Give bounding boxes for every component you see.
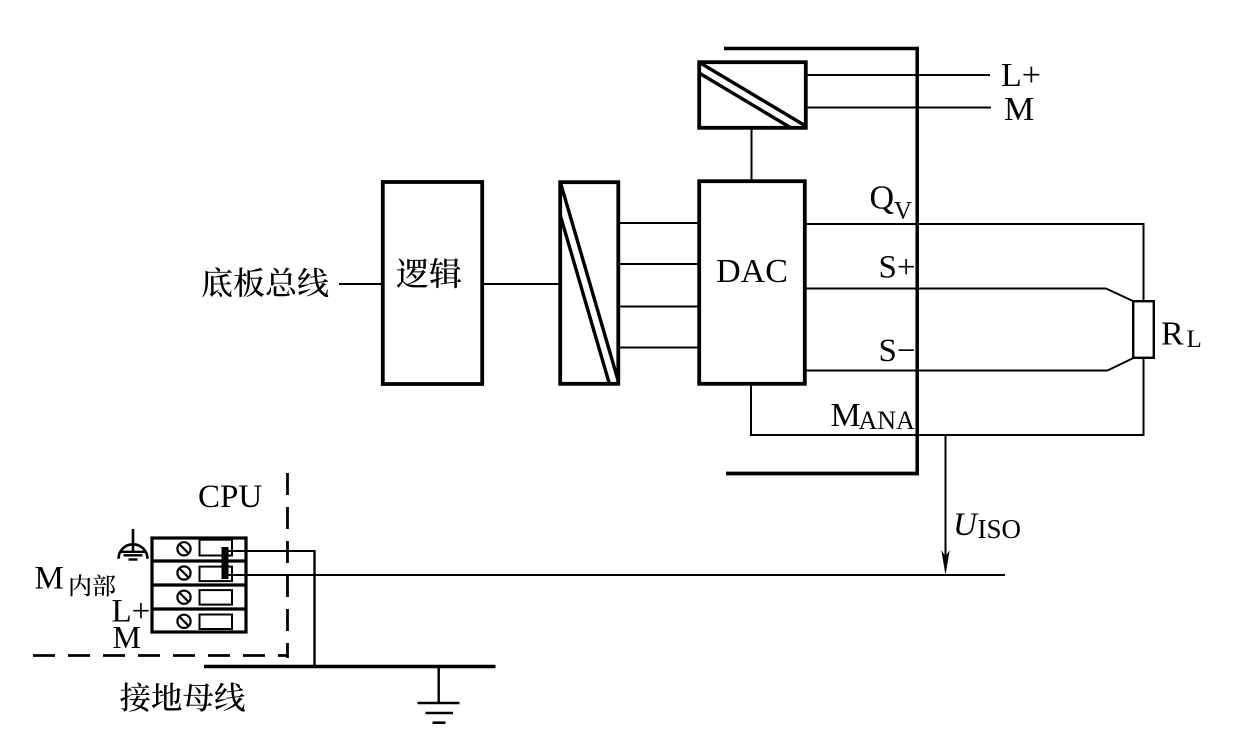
ground bus bar	[204, 665, 496, 668]
terminal contact 4	[200, 615, 233, 630]
isolation barrier diagonal stripes	[550, 181, 620, 387]
wire L+ from DC/DC to terminal	[807, 74, 990, 76]
module boundary bottom line	[726, 472, 919, 476]
UISO arrow line	[945, 435, 947, 568]
chassis ground symbol at CPU	[119, 529, 148, 560]
svg-text:ANA: ANA	[859, 406, 916, 435]
svg-text:DAC: DAC	[716, 253, 788, 290]
svg-text:Q: Q	[870, 180, 895, 217]
svg-text:CPU: CPU	[198, 479, 262, 515]
wire M from DC/DC to terminal	[807, 107, 991, 109]
CPU dashed boundary vertical	[286, 473, 289, 658]
DC/DC converter U2 box	[699, 62, 806, 128]
wire barrier-DAC 4	[619, 347, 699, 349]
module boundary right line	[915, 47, 919, 475]
wire S- sense	[804, 370, 1108, 372]
terminal contact 1	[200, 540, 233, 556]
wire S- diagonal to load	[1108, 358, 1135, 371]
terminal separator 1	[151, 559, 248, 562]
terminal screw 1	[177, 542, 190, 555]
wire M internal long	[228, 574, 1005, 576]
terminal separator 3	[151, 607, 248, 610]
terminal screw 3	[177, 591, 190, 604]
isolation barrier U4 box	[560, 182, 618, 384]
label backplane bus 底板总线	[202, 267, 328, 297]
wire barrier-DAC 2	[619, 263, 699, 265]
svg-text:S−: S−	[879, 333, 916, 369]
wire QV output	[804, 223, 1145, 225]
wire S+ diagonal to load	[1106, 289, 1134, 302]
wire terminal1 vertical to ground bus	[313, 551, 315, 666]
module boundary top line	[724, 47, 919, 51]
DC/DC converter U2 diagonal stripes	[697, 61, 809, 139]
label 逻辑 (logic)	[397, 258, 461, 288]
svg-text:S+: S+	[879, 250, 916, 286]
svg-text:L: L	[1187, 326, 1202, 353]
wire DAC bottom stub to MANA	[750, 384, 752, 436]
svg-text:U: U	[953, 507, 979, 543]
svg-text:L+: L+	[1001, 57, 1041, 94]
svg-text:M: M	[35, 561, 64, 597]
svg-text:M: M	[831, 397, 861, 434]
jumper bar terminals 1-2	[222, 547, 229, 579]
svg-text:M: M	[1004, 91, 1034, 128]
wire logic to isolation barrier	[483, 283, 559, 285]
terminal separator 2	[151, 583, 248, 586]
label 接地母线 (ground bus)	[120, 682, 245, 711]
wire DC/DC to DAC	[751, 129, 753, 180]
wire barrier-DAC 3	[619, 306, 699, 308]
terminal block outer	[152, 538, 246, 632]
terminal screw 4	[177, 615, 190, 628]
CPU dashed boundary horizontal	[33, 654, 288, 657]
wire MANA return	[751, 434, 1145, 436]
terminal contact 2	[200, 567, 233, 582]
wire barrier-DAC 1	[619, 222, 699, 224]
svg-text:V: V	[894, 198, 912, 225]
svg-text:M: M	[113, 619, 141, 655]
wire load vertical	[1143, 223, 1145, 436]
logic block U1 box	[383, 182, 482, 384]
wire S+ sense	[804, 288, 1106, 290]
earth ground symbol	[418, 666, 460, 723]
resistor RL	[1133, 301, 1154, 358]
wire backplane bus to logic	[339, 283, 382, 285]
wire terminal1 to ground bus	[228, 550, 316, 552]
label 内部 (internal)	[71, 574, 116, 596]
UISO arrowhead	[941, 550, 949, 575]
svg-text:ISO: ISO	[978, 514, 1022, 544]
terminal contact 3	[200, 590, 233, 605]
DAC U3 box	[699, 181, 805, 384]
terminal screw 2	[177, 566, 190, 579]
svg-text:R: R	[1161, 316, 1184, 353]
